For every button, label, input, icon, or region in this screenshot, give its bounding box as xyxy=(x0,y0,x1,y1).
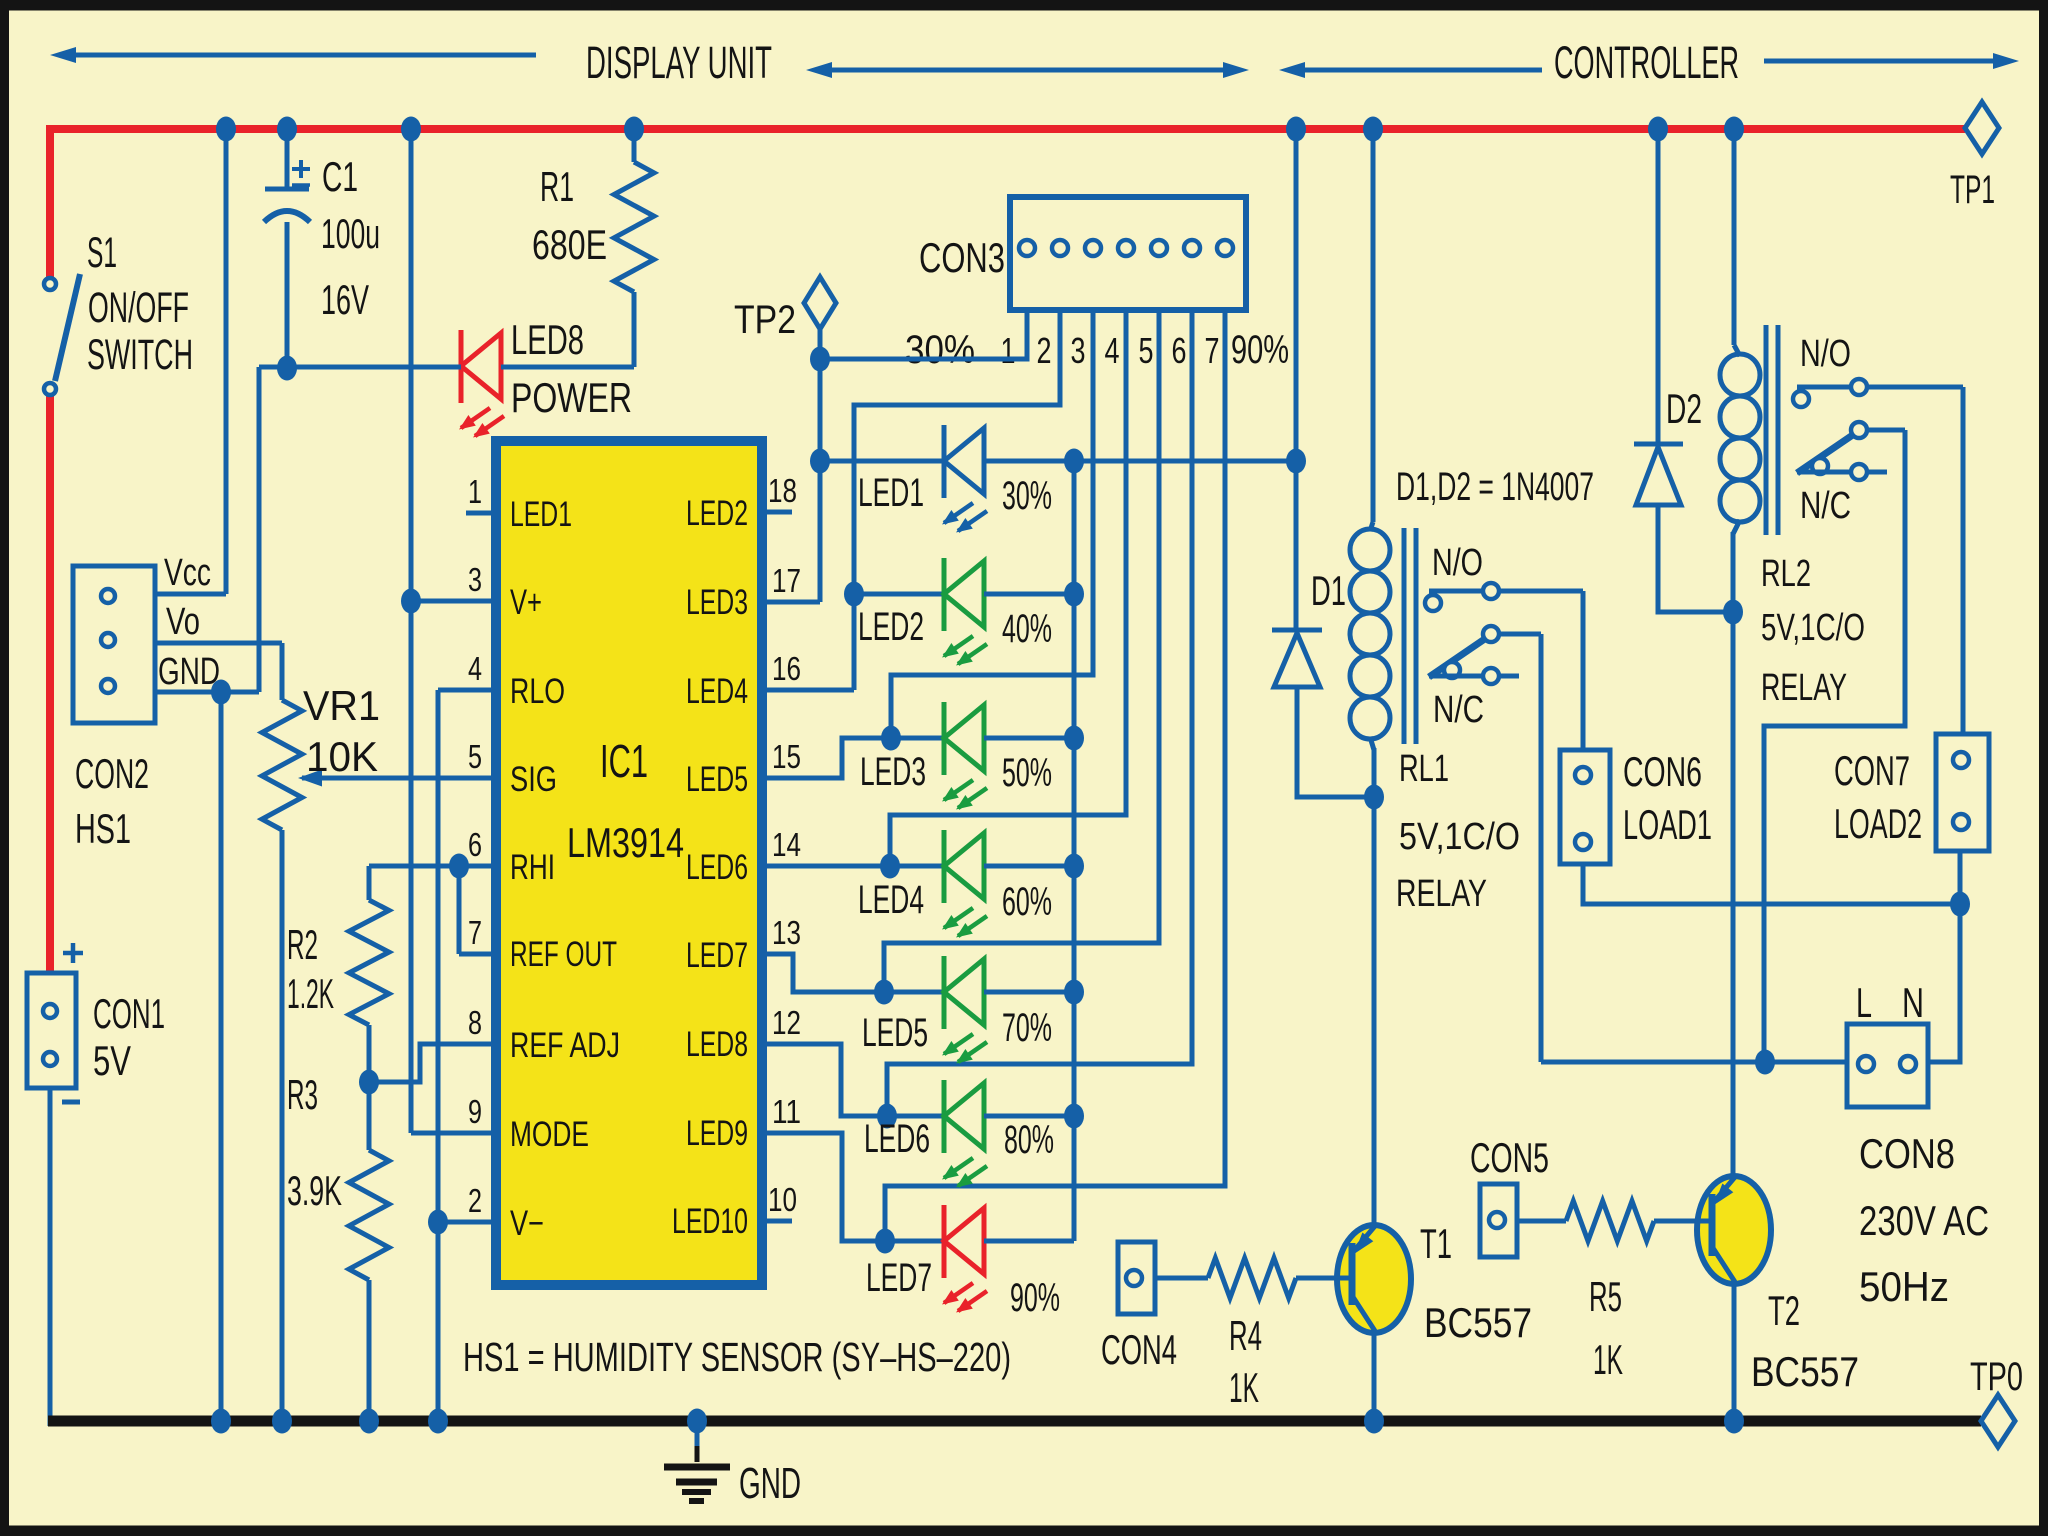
wire RL1 N/O to CON6 xyxy=(1581,591,1586,750)
wire LED3 row to pin15 xyxy=(762,738,891,778)
wire RL2 N/O to CON7 xyxy=(1961,387,1966,734)
switch S1 xyxy=(44,274,80,395)
junction LED4 anode xyxy=(1064,854,1084,879)
svg-text:13: 13 xyxy=(772,914,801,951)
junction gnd x=369 xyxy=(359,1409,379,1434)
junction LED1 anode xyxy=(1064,449,1084,474)
svg-text:1.2K: 1.2K xyxy=(287,970,334,1017)
junction R2/R3/REF ADJ xyxy=(359,1070,379,1095)
svg-text:LED8: LED8 xyxy=(686,1025,748,1064)
junction V- pin2 xyxy=(428,1210,448,1235)
wire RLO column xyxy=(438,690,496,1421)
svg-text:12: 12 xyxy=(772,1004,801,1041)
svg-text:17: 17 xyxy=(772,562,801,599)
wire CON3 pin6 to LED6 xyxy=(887,310,1192,1116)
svg-text:LED8: LED8 xyxy=(511,316,584,363)
wire LED6 anode to bus xyxy=(984,1114,1074,1119)
wire LED7 anode to bus xyxy=(984,1239,1074,1244)
svg-text:N/C: N/C xyxy=(1800,485,1851,527)
CON1 plus sign xyxy=(63,943,83,963)
junction +5V rail x=1658 xyxy=(1648,117,1668,142)
connector CON3 xyxy=(1010,197,1246,310)
label TP2 xyxy=(734,298,796,342)
wire LED4 row to pin14 xyxy=(762,864,890,869)
svg-text:GND: GND xyxy=(739,1459,801,1508)
svg-text:REF ADJ: REF ADJ xyxy=(510,1026,620,1065)
svg-text:REF OUT: REF OUT xyxy=(510,935,617,974)
wire CON7 bottom to CON8 N xyxy=(1928,851,1960,1062)
svg-text:16: 16 xyxy=(772,650,801,687)
junction LED supply xyxy=(1286,449,1306,474)
svg-text:15: 15 xyxy=(772,738,801,775)
svg-text:TP2: TP2 xyxy=(734,298,796,342)
junction V+ pin3 xyxy=(401,589,421,614)
LED5 xyxy=(942,956,987,1064)
svg-text:30%: 30% xyxy=(905,328,975,372)
wire RL1 pole down xyxy=(1539,634,1544,1062)
junction RL2 pole node xyxy=(1755,1050,1775,1075)
wire LED6 row to pin12 xyxy=(762,1044,887,1116)
junction LED5 anode xyxy=(1064,980,1084,1005)
label IC1 xyxy=(600,735,648,787)
svg-text:8: 8 xyxy=(468,1004,482,1041)
svg-text:LED1: LED1 xyxy=(510,495,572,534)
wire V- stub xyxy=(438,1220,496,1225)
label Vcc Vo GND xyxy=(158,552,220,693)
svg-text:LED10: LED10 xyxy=(672,1202,748,1241)
wire V+ column (rail to MODE) xyxy=(411,129,496,1133)
svg-text:HS1 = HUMIDITY SENSOR (SY–HS–2: HS1 = HUMIDITY SENSOR (SY–HS–220) xyxy=(463,1334,1011,1380)
junction C1 bottom xyxy=(277,356,297,381)
arrow display-unit/controller middle xyxy=(806,62,1249,78)
wire CON3 pin1 to TP2 node xyxy=(820,310,1027,359)
wire LED2 cathode lead xyxy=(854,592,944,597)
svg-text:V+: V+ xyxy=(510,583,542,622)
svg-text:RHI: RHI xyxy=(510,848,555,887)
svg-text:RL1: RL1 xyxy=(1399,748,1449,790)
junction LED3 anode xyxy=(1064,726,1084,751)
svg-text:RELAY: RELAY xyxy=(1396,873,1487,915)
svg-text:230V AC: 230V AC xyxy=(1859,1197,1989,1244)
wire LED3 anode to bus xyxy=(984,736,1074,741)
wire CON3 pin2 to LED2 xyxy=(854,310,1060,594)
svg-text:6: 6 xyxy=(468,826,482,863)
svg-text:C1: C1 xyxy=(322,153,358,200)
arrow controller left xyxy=(1279,62,1542,78)
label CON4 xyxy=(1101,1326,1177,1373)
junction LED6 anode xyxy=(1064,1104,1084,1129)
resistor R5 xyxy=(1517,1201,1712,1241)
arrow display-unit left xyxy=(50,47,536,63)
svg-text:S1: S1 xyxy=(87,229,117,277)
potentiometer VR1 xyxy=(262,700,302,1421)
label LED8 POWER xyxy=(511,316,632,421)
IC1 left pin labels xyxy=(510,495,620,1243)
test point TP2 xyxy=(804,277,836,359)
wire RHI to REF OUT xyxy=(459,866,496,954)
svg-text:Vcc: Vcc xyxy=(164,552,211,594)
svg-text:LED5: LED5 xyxy=(686,760,748,799)
label L N xyxy=(1856,979,1924,1026)
wire +5V top rail (red) xyxy=(46,125,1965,281)
resistor R4 xyxy=(1155,1258,1352,1298)
svg-text:R5: R5 xyxy=(1589,1273,1622,1320)
label R1 680E xyxy=(532,163,607,268)
svg-text:DISPLAY UNIT: DISPLAY UNIT xyxy=(586,37,772,88)
label CON8 230V AC 50Hz xyxy=(1859,1130,1989,1310)
label D2 xyxy=(1666,385,1702,432)
svg-text:T2: T2 xyxy=(1768,1287,1800,1334)
IC1 right pin numbers xyxy=(768,472,801,1218)
wire REF ADJ jog xyxy=(369,1044,496,1082)
svg-text:LED9: LED9 xyxy=(686,1114,748,1153)
wire LED6 cathode lead xyxy=(887,1114,944,1119)
labels LED1-7 xyxy=(858,471,932,1300)
svg-text:N/O: N/O xyxy=(1432,542,1483,584)
svg-text:4: 4 xyxy=(468,650,482,687)
label R2 1.2K xyxy=(287,921,334,1017)
label RL2 N/C xyxy=(1800,485,1851,527)
LED4 xyxy=(942,830,987,938)
junction CON2 GND xyxy=(211,680,231,705)
svg-text:LED6: LED6 xyxy=(686,848,748,887)
junction gnd x=438 xyxy=(428,1409,448,1434)
svg-text:TP1: TP1 xyxy=(1950,168,1995,212)
connector CON1 xyxy=(27,973,76,1088)
wire CON3 pin3 to LED3 xyxy=(891,310,1093,738)
resistor R3 xyxy=(349,1082,389,1421)
relay RL2 core xyxy=(1766,325,1778,535)
svg-text:ON/OFF: ON/OFF xyxy=(88,284,189,332)
IC1 left pin numbers xyxy=(468,473,482,1219)
svg-text:VR1: VR1 xyxy=(303,682,380,729)
wire C1/LED8 node down to CON2 GND xyxy=(155,367,259,692)
label D1,D2 = 1N4007 xyxy=(1396,465,1594,509)
junction LED7 cathode xyxy=(875,1229,895,1254)
svg-text:CON2: CON2 xyxy=(75,750,149,797)
IC1 pin18 stub xyxy=(762,510,792,515)
junction LED2 anode xyxy=(1064,582,1084,607)
junction +5V rail x=634 xyxy=(624,117,644,142)
svg-text:11: 11 xyxy=(772,1093,801,1130)
resistor R1 xyxy=(614,133,654,367)
svg-text:Vo: Vo xyxy=(166,601,200,643)
LED1 xyxy=(942,425,987,533)
label R3 3.9K xyxy=(287,1071,342,1214)
label CON3 xyxy=(919,234,1005,281)
label CON3 pin numbers xyxy=(905,328,1289,372)
wire RL2 coil node to T2 collector xyxy=(1731,612,1736,1177)
svg-text:TP0: TP0 xyxy=(1970,1355,2023,1399)
svg-text:BC557: BC557 xyxy=(1424,1299,1532,1346)
svg-text:1: 1 xyxy=(468,473,482,510)
svg-text:2: 2 xyxy=(1037,330,1052,371)
label RL2 5V 1C/O RELAY xyxy=(1761,553,1865,709)
svg-text:GND: GND xyxy=(158,651,220,693)
junction RL1 coil bottom xyxy=(1364,785,1384,810)
wire CON3 pin5 to LED5 xyxy=(884,310,1159,992)
label RL1 5V 1C/O RELAY xyxy=(1396,748,1520,915)
wire LED2 anode to bus xyxy=(984,592,1074,597)
svg-text:V−: V− xyxy=(510,1204,544,1243)
svg-text:2: 2 xyxy=(468,1182,482,1219)
svg-text:3.9K: 3.9K xyxy=(287,1167,342,1214)
svg-text:CONTROLLER: CONTROLLER xyxy=(1554,37,1739,88)
svg-text:4: 4 xyxy=(1105,330,1120,371)
svg-text:7: 7 xyxy=(1205,330,1220,371)
svg-text:BC557: BC557 xyxy=(1751,1348,1859,1395)
label R5 1K xyxy=(1589,1273,1623,1383)
junction LED1 cathode xyxy=(810,449,830,474)
svg-text:LOAD1: LOAD1 xyxy=(1623,801,1712,848)
wire LED7 row to pin11 xyxy=(762,1133,885,1241)
wire CON1 minus to ground rail xyxy=(48,1088,60,1426)
test point TP0 xyxy=(1970,1355,2023,1447)
junction LED6 cathode xyxy=(877,1104,897,1129)
LED6 xyxy=(942,1080,987,1188)
svg-text:50%: 50% xyxy=(1002,751,1052,795)
label T1 BC557 xyxy=(1420,1220,1532,1346)
svg-text:1: 1 xyxy=(1001,330,1016,371)
wire CON3 pin7 to LED7 xyxy=(885,310,1225,1241)
wire D1 to RL1 coil bottom xyxy=(1297,687,1374,797)
label S1 ON/OFF SWITCH xyxy=(87,229,193,379)
relay RL2 contacts xyxy=(1793,379,1963,480)
svg-text:LM3914: LM3914 xyxy=(567,819,684,866)
svg-text:90%: 90% xyxy=(1231,328,1289,372)
svg-text:14: 14 xyxy=(772,826,801,863)
wire Vo to VR1 xyxy=(155,643,282,700)
connector CON5 xyxy=(1480,1184,1517,1257)
svg-text:10: 10 xyxy=(768,1181,797,1218)
LED8 (power LED) xyxy=(459,330,504,438)
svg-text:LED7: LED7 xyxy=(686,936,748,975)
transistor T1 BC557 xyxy=(1337,797,1411,1421)
wire LED4 cathode lead xyxy=(890,864,944,869)
svg-text:LED6: LED6 xyxy=(864,1117,930,1161)
svg-text:100u: 100u xyxy=(321,210,380,257)
relay RL1 contacts xyxy=(1425,583,1583,684)
junction RL2 coil bottom xyxy=(1723,600,1743,625)
diode D2 xyxy=(1634,444,1683,505)
svg-text:680E: 680E xyxy=(532,221,607,268)
op-amp IC1 LM3914 body xyxy=(496,441,762,1285)
svg-text:LED5: LED5 xyxy=(862,1011,928,1055)
wire LED7 cathode lead xyxy=(885,1239,944,1244)
wire TP2 column to LED1 and pin17 xyxy=(762,359,820,602)
svg-text:CON3: CON3 xyxy=(919,234,1005,281)
svg-text:D1,D2 = 1N4007: D1,D2 = 1N4007 xyxy=(1396,465,1594,509)
transistor T2 BC557 xyxy=(1697,1176,1771,1421)
svg-text:CON1: CON1 xyxy=(93,990,165,1037)
svg-text:16V: 16V xyxy=(321,276,369,323)
junction LED4 cathode xyxy=(880,854,900,879)
svg-text:SWITCH: SWITCH xyxy=(87,331,193,379)
wire LED1 cathode lead xyxy=(820,459,944,464)
relay RL1 coil xyxy=(1350,129,1390,797)
svg-text:1K: 1K xyxy=(1229,1364,1259,1411)
svg-text:LED2: LED2 xyxy=(858,605,924,649)
svg-text:LED3: LED3 xyxy=(686,583,748,622)
svg-text:SIG: SIG xyxy=(510,760,557,799)
wire LED8 anode to R1 xyxy=(501,365,634,370)
wire LED8 cathode to GND net xyxy=(259,365,461,370)
connector CON6 xyxy=(1560,750,1610,864)
junction +5V rail x=1734 xyxy=(1724,117,1744,142)
svg-text:N/C: N/C xyxy=(1433,689,1484,731)
label CON2 HS1 xyxy=(75,750,149,852)
junction LED3 cathode xyxy=(881,726,901,751)
capacitor C1 xyxy=(264,133,310,368)
connector CON8 L/N block xyxy=(1847,1024,1928,1107)
svg-text:80%: 80% xyxy=(1004,1118,1054,1162)
junction T2 emitter-gnd xyxy=(1724,1409,1744,1434)
svg-text:CON7: CON7 xyxy=(1834,747,1910,794)
label CONTROLLER xyxy=(1554,37,1739,88)
wire LED1 anode to bus xyxy=(984,459,1074,464)
svg-text:3: 3 xyxy=(468,561,482,598)
svg-text:LED1: LED1 xyxy=(858,471,924,515)
wire +5V drop to D1 xyxy=(1294,129,1299,632)
svg-text:HS1: HS1 xyxy=(75,805,131,852)
junction +5V rail x=287 xyxy=(277,117,297,142)
svg-text:9: 9 xyxy=(468,1093,482,1130)
svg-text:18: 18 xyxy=(768,472,797,509)
wire V+ stub xyxy=(411,599,496,604)
label RL2 N/O xyxy=(1800,333,1851,375)
svg-text:5V,1C/O: 5V,1C/O xyxy=(1761,607,1865,649)
svg-text:D1: D1 xyxy=(1311,567,1346,614)
label CON5 xyxy=(1470,1134,1549,1181)
wire CON6 bottom to CON7/CON8 node xyxy=(1583,864,1960,904)
relay RL2 coil xyxy=(1720,129,1760,612)
svg-text:LOAD2: LOAD2 xyxy=(1834,800,1922,847)
label HS1 note xyxy=(463,1334,1011,1380)
svg-text:R4: R4 xyxy=(1229,1312,1262,1359)
ground rail (black) xyxy=(48,1416,1981,1427)
connector CON4 xyxy=(1118,1242,1155,1314)
label VR1 10K xyxy=(303,682,380,780)
svg-text:60%: 60% xyxy=(1002,880,1052,924)
svg-text:70%: 70% xyxy=(1002,1006,1052,1050)
svg-text:5V,1C/O: 5V,1C/O xyxy=(1399,816,1520,858)
wire GND column to rail xyxy=(219,692,224,1421)
wire LED5 row to pin13 xyxy=(762,954,884,992)
wire LED5 anode to bus xyxy=(984,990,1074,995)
label DISPLAY UNIT xyxy=(586,37,772,88)
junction gnd GND symbol xyxy=(687,1409,707,1434)
label RL1 N/C xyxy=(1433,689,1484,731)
junction RHI xyxy=(449,854,469,879)
LED7 xyxy=(942,1205,987,1313)
wire RHI stub xyxy=(369,864,496,869)
label R4 1K xyxy=(1229,1312,1262,1411)
wire RL2 pole down xyxy=(1764,430,1905,1062)
svg-text:5: 5 xyxy=(1139,330,1154,371)
label CON7 LOAD2 xyxy=(1834,747,1922,847)
wire CON3 pin4 to LED4 xyxy=(890,310,1126,866)
wire LED anode bus xyxy=(1072,461,1077,1241)
wire LED2 node to pin16 xyxy=(762,594,854,690)
connector CON7 xyxy=(1936,734,1989,851)
resistor R2 xyxy=(349,866,389,1082)
svg-text:LED7: LED7 xyxy=(866,1256,932,1300)
wire RL1 pole to CON8 L xyxy=(1541,1060,1847,1065)
labels percent xyxy=(1002,474,1060,1320)
svg-text:5: 5 xyxy=(468,738,482,775)
svg-text:IC1: IC1 xyxy=(600,735,648,787)
svg-text:CON8: CON8 xyxy=(1859,1130,1955,1177)
svg-text:MODE: MODE xyxy=(510,1115,589,1154)
svg-text:R2: R2 xyxy=(287,921,318,968)
svg-text:30%: 30% xyxy=(1002,474,1052,518)
label GND xyxy=(739,1459,801,1508)
IC1 right pin labels xyxy=(672,494,748,1241)
svg-text:D2: D2 xyxy=(1666,385,1702,432)
arrow controller right xyxy=(1764,53,2019,69)
svg-text:T1: T1 xyxy=(1420,1220,1452,1267)
svg-text:6: 6 xyxy=(1172,330,1187,371)
wire D2 column xyxy=(1656,129,1661,446)
svg-text:L: L xyxy=(1856,979,1872,1026)
svg-text:POWER: POWER xyxy=(511,374,632,421)
IC1 pin1 stub xyxy=(466,511,496,516)
svg-text:N: N xyxy=(1902,979,1924,1026)
svg-text:10K: 10K xyxy=(306,733,378,780)
svg-text:90%: 90% xyxy=(1010,1276,1060,1320)
svg-text:40%: 40% xyxy=(1002,607,1052,651)
svg-text:5V: 5V xyxy=(93,1037,131,1084)
junction +5V rail x=1296 xyxy=(1286,117,1306,142)
junction LED2 cathode xyxy=(844,582,864,607)
svg-text:LED2: LED2 xyxy=(686,494,748,533)
svg-text:N/O: N/O xyxy=(1800,333,1851,375)
svg-text:7: 7 xyxy=(468,914,482,951)
svg-text:RL2: RL2 xyxy=(1761,553,1811,595)
svg-text:LED4: LED4 xyxy=(686,672,748,711)
wire red to switch S1 bottom to CON1 xyxy=(46,394,54,975)
junction T1 emitter-gnd xyxy=(1364,1409,1384,1434)
label D1 xyxy=(1311,567,1346,614)
junction TP2 node xyxy=(810,347,830,372)
wire Vcc column xyxy=(155,129,226,594)
IC1 pin10 stub xyxy=(762,1219,792,1224)
svg-text:LED3: LED3 xyxy=(860,750,926,794)
label LM3914 xyxy=(567,819,684,866)
svg-text:RLO: RLO xyxy=(510,672,565,711)
label RL1 N/O xyxy=(1432,542,1483,584)
VR1 wiper to SIG xyxy=(298,770,496,787)
connector CON2 xyxy=(73,566,155,723)
test point TP1 xyxy=(1950,102,1999,212)
junction CON7 bottom node xyxy=(1950,892,1970,917)
wire LED4 anode to bus xyxy=(984,864,1074,869)
svg-text:LED4: LED4 xyxy=(858,878,924,922)
diode D1 xyxy=(1272,630,1322,687)
label T2 BC557 xyxy=(1751,1287,1859,1395)
junction gnd x=282 xyxy=(272,1409,292,1434)
svg-text:R1: R1 xyxy=(540,163,574,210)
wire LED1 row to +5V drop xyxy=(1074,459,1296,464)
junction +5V rail x=1373 xyxy=(1363,117,1383,142)
wire D2 to RL2 coil bottom xyxy=(1658,505,1733,612)
svg-text:R3: R3 xyxy=(287,1071,318,1118)
junction +5V rail x=411 xyxy=(401,117,421,142)
svg-text:3: 3 xyxy=(1071,330,1086,371)
LED2 xyxy=(942,558,987,666)
label CON1 5V xyxy=(93,990,165,1084)
svg-text:RELAY: RELAY xyxy=(1761,667,1847,709)
